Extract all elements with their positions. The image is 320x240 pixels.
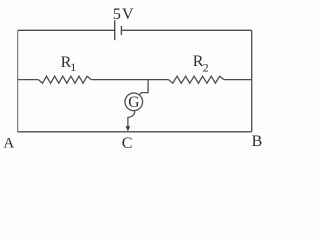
wire right side xyxy=(251,30,253,132)
battery cell long plate xyxy=(114,20,116,40)
resistor R1 zigzag xyxy=(38,76,91,83)
galvanometer U-G circle xyxy=(125,93,143,111)
wire galvanometer bottom hook xyxy=(128,111,135,128)
wire bottom A-to-B xyxy=(18,131,252,133)
resistor R2 zigzag xyxy=(169,76,225,83)
wire middle-right segment xyxy=(224,79,252,81)
svg-text:2: 2 xyxy=(203,60,209,74)
svg-text:G: G xyxy=(128,94,139,111)
wire galvanometer top branch xyxy=(140,80,148,95)
wire middle-left segment xyxy=(18,79,39,81)
arrowhead to node C xyxy=(126,126,131,131)
svg-text:B: B xyxy=(252,133,263,150)
svg-text:C: C xyxy=(122,135,133,152)
wire top-left segment xyxy=(18,29,115,31)
svg-text:A: A xyxy=(3,135,14,151)
wire middle-centre segment xyxy=(91,79,168,81)
wire top-right segment xyxy=(121,29,251,31)
svg-text:1: 1 xyxy=(70,60,76,74)
svg-text:5: 5 xyxy=(113,6,121,23)
svg-text:V: V xyxy=(122,6,134,23)
wire left side xyxy=(17,30,19,132)
battery cell short plate xyxy=(120,26,122,35)
